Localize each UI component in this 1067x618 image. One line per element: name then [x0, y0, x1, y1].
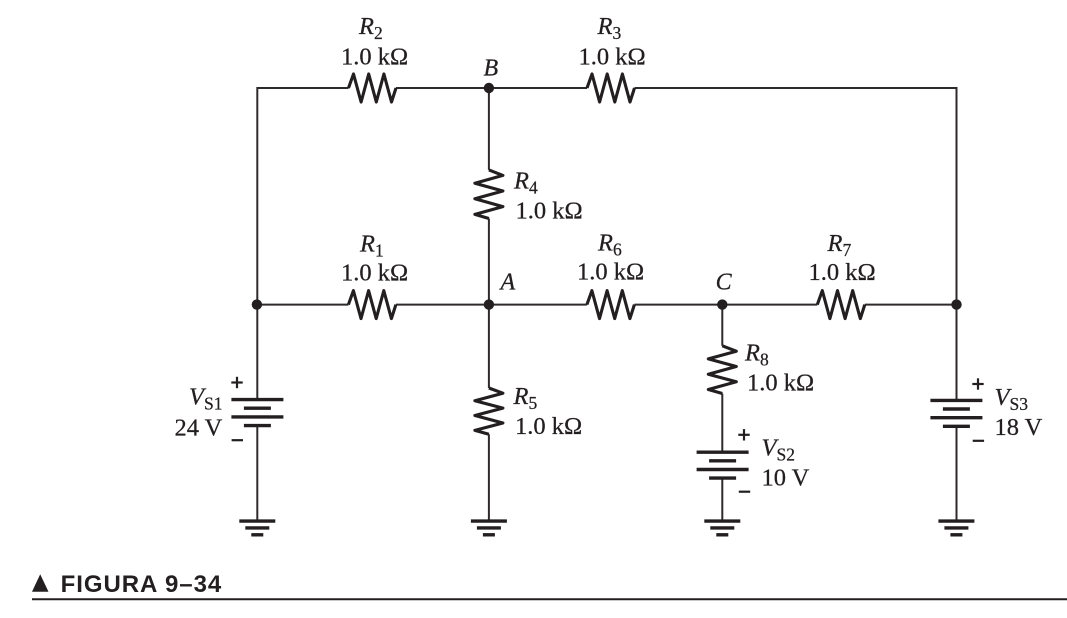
wire: node C down to R8	[721, 305, 723, 346]
svg-text:R2: R2	[358, 13, 383, 43]
ground (below VS3)	[938, 521, 974, 535]
wire: top rail left segment	[257, 87, 348, 89]
svg-text:10 V: 10 V	[762, 464, 810, 491]
ground (below VS2)	[704, 521, 740, 535]
wire: node B down to R4	[488, 88, 490, 170]
svg-text:18 V: 18 V	[995, 414, 1043, 441]
ground (below R5)	[471, 521, 507, 535]
wire: right rail vertical upper	[956, 87, 958, 400]
svg-text:B: B	[484, 56, 499, 82]
wire: middle rail left segment	[257, 304, 348, 306]
wire: R4 down through node A to R5	[488, 219, 490, 389]
polarity + of VS3	[972, 378, 983, 389]
svg-text:FIGURA 9–34: FIGURA 9–34	[61, 571, 223, 598]
resistor R2	[349, 74, 397, 102]
svg-text:1.0 kΩ: 1.0 kΩ	[577, 259, 644, 286]
svg-text:VS2: VS2	[762, 435, 795, 465]
wire: right rail vertical lower (VS3 to ground)	[956, 427, 958, 521]
svg-text:24 V: 24 V	[175, 415, 223, 442]
node C junction dot	[717, 299, 727, 309]
battery VS3	[930, 400, 982, 426]
figure caption marker triangle	[32, 574, 49, 592]
wire: middle rail segment A span	[396, 304, 587, 306]
svg-text:1.0 kΩ: 1.0 kΩ	[516, 197, 583, 224]
polarity + of VS2	[738, 429, 749, 440]
svg-text:R7: R7	[827, 230, 852, 260]
svg-text:1.0 kΩ: 1.0 kΩ	[809, 259, 876, 286]
battery VS2	[697, 452, 749, 478]
svg-text:R4: R4	[513, 167, 538, 197]
wire: top rail right segment	[635, 87, 957, 89]
resistor R5	[475, 388, 503, 434]
svg-text:R3: R3	[597, 13, 622, 43]
wire: R8 down to VS2	[721, 394, 723, 453]
ground (below VS1)	[239, 521, 275, 535]
resistor R8	[708, 346, 736, 394]
svg-text:VS1: VS1	[189, 384, 222, 414]
wire: R5 down to ground	[488, 434, 490, 520]
figure caption rule	[32, 598, 1067, 600]
svg-text:1.0 kΩ: 1.0 kΩ	[579, 43, 646, 70]
resistor R4	[475, 170, 503, 219]
junction dot: left rail / middle rail	[252, 299, 262, 309]
resistor R6	[587, 291, 635, 319]
svg-text:1.0 kΩ: 1.0 kΩ	[747, 370, 814, 397]
polarity + of VS1	[231, 377, 242, 388]
svg-text:R1: R1	[359, 230, 384, 260]
wire: middle rail segment C span	[634, 304, 817, 306]
svg-text:C: C	[716, 269, 733, 295]
node A junction dot	[484, 299, 494, 309]
svg-text:1.0 kΩ: 1.0 kΩ	[341, 260, 408, 287]
junction dot: right rail / middle rail	[951, 299, 961, 309]
svg-text:A: A	[499, 270, 516, 296]
resistor R1	[348, 291, 396, 319]
polarity - of VS1	[232, 439, 243, 441]
svg-text:1.0 kΩ: 1.0 kΩ	[515, 413, 582, 440]
wire: middle rail right segment	[865, 304, 957, 306]
polarity - of VS3	[973, 440, 984, 442]
wire: left rail vertical lower (VS1 to ground)	[256, 426, 258, 521]
resistor R7	[817, 291, 865, 319]
svg-text:R5: R5	[513, 383, 538, 413]
polarity - of VS2	[739, 491, 750, 493]
svg-text:VS3: VS3	[995, 384, 1029, 414]
wire: VS2 down to ground	[721, 477, 723, 520]
svg-text:R6: R6	[597, 230, 622, 260]
resistor R3	[587, 74, 635, 102]
svg-text:R8: R8	[744, 340, 769, 370]
wire: left rail vertical upper	[256, 87, 258, 400]
svg-text:1.0 kΩ: 1.0 kΩ	[341, 43, 408, 70]
wire: top rail middle segment (node B span)	[396, 87, 587, 89]
node B junction dot	[484, 83, 494, 93]
battery VS1	[231, 400, 283, 426]
